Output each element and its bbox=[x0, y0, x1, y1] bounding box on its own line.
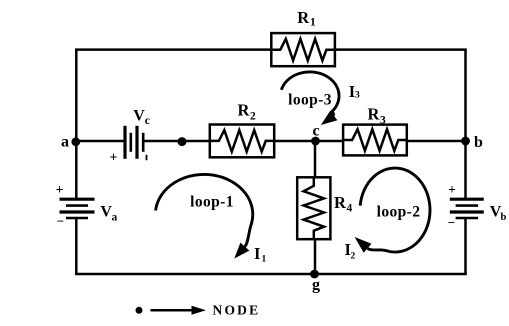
svg-text:+: + bbox=[110, 149, 118, 164]
svg-text:c: c bbox=[312, 123, 319, 140]
svg-text:1: 1 bbox=[262, 255, 267, 265]
svg-text:b: b bbox=[501, 212, 507, 223]
svg-text:a: a bbox=[61, 134, 69, 151]
svg-text:g: g bbox=[312, 277, 320, 294]
svg-text:−: − bbox=[448, 215, 455, 230]
svg-text:loop-3: loop-3 bbox=[288, 92, 332, 109]
svg-text:loop-1: loop-1 bbox=[190, 194, 234, 211]
svg-text:NODE: NODE bbox=[213, 303, 261, 318]
svg-text:R: R bbox=[238, 101, 251, 120]
svg-text:3: 3 bbox=[355, 91, 360, 101]
svg-text:3: 3 bbox=[380, 115, 386, 127]
svg-text:1: 1 bbox=[310, 17, 316, 29]
svg-text:b: b bbox=[474, 134, 483, 151]
svg-text:V: V bbox=[133, 108, 145, 125]
svg-text:2: 2 bbox=[351, 252, 356, 262]
svg-text:+: + bbox=[448, 182, 456, 197]
svg-text:2: 2 bbox=[250, 111, 256, 123]
svg-text:a: a bbox=[112, 211, 118, 223]
svg-text:R: R bbox=[297, 8, 310, 27]
svg-text:+: + bbox=[56, 182, 64, 197]
svg-text:R: R bbox=[334, 193, 347, 212]
svg-text:−: − bbox=[57, 214, 64, 229]
svg-text:I: I bbox=[254, 244, 260, 263]
svg-text:R: R bbox=[368, 105, 381, 124]
svg-text:4: 4 bbox=[347, 203, 353, 215]
svg-text:c: c bbox=[145, 115, 150, 127]
svg-text:loop-2: loop-2 bbox=[377, 204, 421, 221]
